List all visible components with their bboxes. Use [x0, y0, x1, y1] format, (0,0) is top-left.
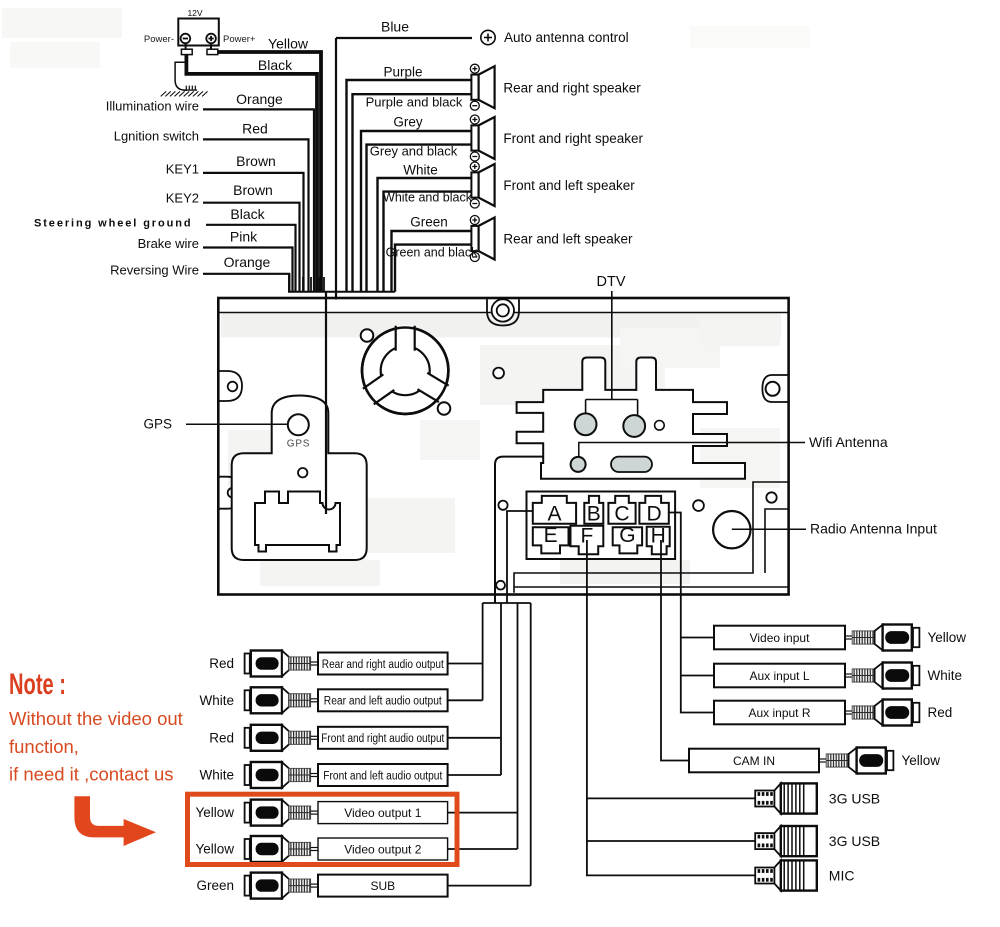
svg-text:Yellow: Yellow	[902, 753, 941, 768]
svg-text:Purple and black: Purple and black	[366, 95, 463, 110]
svg-text:A: A	[547, 503, 561, 526]
svg-text:Green: Green	[410, 215, 448, 230]
svg-text:Orange: Orange	[236, 91, 283, 107]
svg-text:Yellow: Yellow	[928, 630, 967, 645]
svg-text:Black: Black	[230, 206, 265, 222]
svg-text:Rear and left speaker: Rear and left speaker	[503, 232, 633, 247]
svg-text:White: White	[199, 693, 234, 708]
svg-text:GPS: GPS	[143, 417, 172, 432]
svg-text:Yellow: Yellow	[268, 36, 309, 52]
svg-text:Without the video out: Without the video out	[9, 708, 183, 729]
svg-text:Power+: Power+	[223, 34, 256, 45]
svg-text:3G USB: 3G USB	[829, 833, 880, 849]
svg-text:Orange: Orange	[224, 254, 271, 270]
svg-text:H: H	[651, 525, 666, 548]
svg-text:Aux input L: Aux input L	[749, 669, 809, 683]
svg-text:White: White	[403, 163, 438, 178]
svg-text:White: White	[199, 768, 234, 783]
svg-text:Front and right speaker: Front and right speaker	[503, 131, 643, 146]
svg-text:12V: 12V	[187, 8, 202, 18]
svg-text:Front and left audio output: Front and left audio output	[323, 770, 443, 782]
svg-text:Illumination wire: Illumination wire	[106, 99, 199, 114]
svg-text:Auto antenna control: Auto antenna control	[504, 30, 629, 45]
svg-text:Yellow: Yellow	[195, 805, 234, 820]
svg-text:Red: Red	[242, 121, 268, 137]
svg-text:Rear and left audio output: Rear and left audio output	[324, 696, 443, 708]
svg-text:Wifi Antenna: Wifi Antenna	[809, 434, 888, 450]
svg-text:Grey: Grey	[393, 115, 423, 130]
svg-text:Video output 2: Video output 2	[344, 842, 422, 856]
svg-text:Brown: Brown	[233, 182, 273, 198]
svg-text:Front and left speaker: Front and left speaker	[503, 178, 635, 193]
svg-text:Rear and right speaker: Rear and right speaker	[503, 81, 641, 96]
svg-text:Green and black: Green and black	[386, 246, 478, 260]
svg-text:Green: Green	[196, 878, 234, 893]
svg-text:MIC: MIC	[829, 867, 855, 883]
svg-text:Blue: Blue	[381, 19, 409, 35]
svg-text:E: E	[544, 524, 558, 547]
svg-text:D: D	[647, 503, 662, 526]
svg-text:Aux input R: Aux input R	[748, 706, 810, 720]
svg-text:function,: function,	[9, 736, 79, 757]
svg-text:White: White	[928, 668, 963, 683]
svg-text:Steering wheel ground: Steering wheel ground	[34, 218, 192, 230]
svg-text:KEY1: KEY1	[166, 162, 199, 177]
svg-text:DTV: DTV	[597, 274, 626, 290]
svg-text:Power-: Power-	[144, 34, 174, 45]
svg-text:Rear and right audio output: Rear and right audio output	[322, 659, 445, 671]
svg-text:if need it ,contact us: if need it ,contact us	[9, 764, 174, 785]
svg-text:Note :: Note :	[9, 668, 66, 701]
svg-text:Pink: Pink	[230, 229, 258, 245]
svg-text:GPS: GPS	[287, 439, 311, 450]
svg-text:White and black: White and black	[383, 191, 473, 205]
svg-text:G: G	[619, 524, 635, 547]
svg-text:Red: Red	[209, 730, 234, 745]
svg-text:Brake wire: Brake wire	[138, 236, 199, 251]
svg-text:Lgnition switch: Lgnition switch	[114, 129, 199, 144]
svg-text:C: C	[614, 503, 629, 526]
svg-text:Radio Antenna Input: Radio Antenna Input	[810, 521, 937, 537]
svg-text:B: B	[587, 503, 601, 526]
svg-text:KEY2: KEY2	[166, 191, 199, 206]
svg-text:Black: Black	[258, 57, 293, 73]
svg-text:Grey and black: Grey and black	[370, 144, 458, 159]
svg-text:Purple: Purple	[383, 65, 422, 80]
svg-text:3G USB: 3G USB	[829, 790, 880, 806]
svg-text:Brown: Brown	[236, 153, 276, 169]
svg-text:Front and right audio output: Front and right audio output	[321, 733, 445, 745]
svg-text:Reversing Wire: Reversing Wire	[110, 263, 199, 278]
svg-text:Red: Red	[209, 656, 234, 671]
svg-text:CAM IN: CAM IN	[733, 754, 775, 768]
svg-text:Yellow: Yellow	[195, 842, 234, 857]
svg-text:SUB: SUB	[370, 879, 395, 893]
svg-text:Video output 1: Video output 1	[344, 806, 422, 820]
svg-text:Red: Red	[928, 705, 953, 720]
svg-text:Video input: Video input	[750, 631, 810, 645]
